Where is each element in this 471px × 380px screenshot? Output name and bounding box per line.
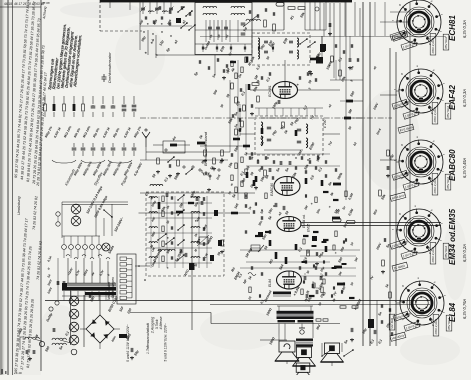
- svg-text:Drehkondensator: Drehkondensator: [107, 52, 112, 83]
- svg-text:85V 5mA: 85V 5mA: [444, 37, 448, 49]
- svg-text:6,3V 0,76A: 6,3V 0,76A: [462, 298, 467, 319]
- svg-text:EL84: EL84: [268, 279, 272, 287]
- svg-text:170V 2,1mA: 170V 2,1mA: [433, 178, 437, 194]
- svg-text:44 18: 44 18: [4, 2, 12, 6]
- svg-text:170V 2,1mA: 170V 2,1mA: [433, 107, 437, 123]
- svg-text:6,3V 0,45A: 6,3V 0,45A: [462, 157, 467, 178]
- svg-text:2.Ausgang: 2.Ausgang: [150, 317, 154, 334]
- svg-text:5 und 6 110V bzw. 220V~: 5 und 6 110V bzw. 220V~: [164, 323, 168, 362]
- svg-text:170V 2,1mA: 170V 2,1mA: [431, 38, 435, 54]
- svg-text:EABC80: EABC80: [270, 183, 274, 196]
- svg-text:6,3V 0,3A: 6,3V 0,3A: [462, 89, 467, 107]
- svg-text:Umrüstung: Umrüstung: [17, 196, 21, 215]
- svg-text:Vor 4kΩ: Vor 4kΩ: [390, 317, 394, 329]
- svg-text:EM35: EM35: [307, 223, 311, 232]
- svg-text:1.Tellenausschaltadt: 1.Tellenausschaltadt: [146, 322, 150, 354]
- svg-text:E 290: E 290: [323, 119, 327, 128]
- svg-text:85V 5mA: 85V 5mA: [447, 318, 451, 330]
- svg-text:4.Messe: 4.Messe: [159, 316, 163, 329]
- svg-text:78 98: 78 98: [42, 1, 50, 5]
- svg-text:EM34 od.EM35: EM34 od.EM35: [448, 208, 457, 265]
- svg-text:EABC80: EABC80: [448, 149, 457, 181]
- svg-text:170V 2,1mA: 170V 2,1mA: [431, 247, 435, 263]
- svg-text:5 und 6 110V bzw 220V~: 5 und 6 110V bzw 220V~: [126, 324, 130, 362]
- svg-text:46 17 26 68 47 63 48: 46 17 26 68 47 63 48: [14, 2, 44, 6]
- svg-text:6,3V 0,2A: 6,3V 0,2A: [462, 244, 467, 262]
- svg-text:ECH81: ECH81: [268, 85, 272, 97]
- svg-text:85V 5mA: 85V 5mA: [446, 177, 450, 189]
- svg-text:170V 2,1mA: 170V 2,1mA: [434, 319, 438, 335]
- svg-text:3.Trick: 3.Trick: [155, 319, 159, 329]
- svg-text:EM34 od.: EM34 od.: [302, 214, 306, 228]
- svg-text:85V 5mA: 85V 5mA: [444, 246, 448, 258]
- svg-text:85V 5mA: 85V 5mA: [446, 106, 450, 118]
- svg-text:26 16: 26 16: [13, 371, 22, 375]
- svg-text:6,3V 0,3A: 6,3V 0,3A: [462, 20, 467, 38]
- svg-text:ECH81: ECH81: [448, 15, 457, 41]
